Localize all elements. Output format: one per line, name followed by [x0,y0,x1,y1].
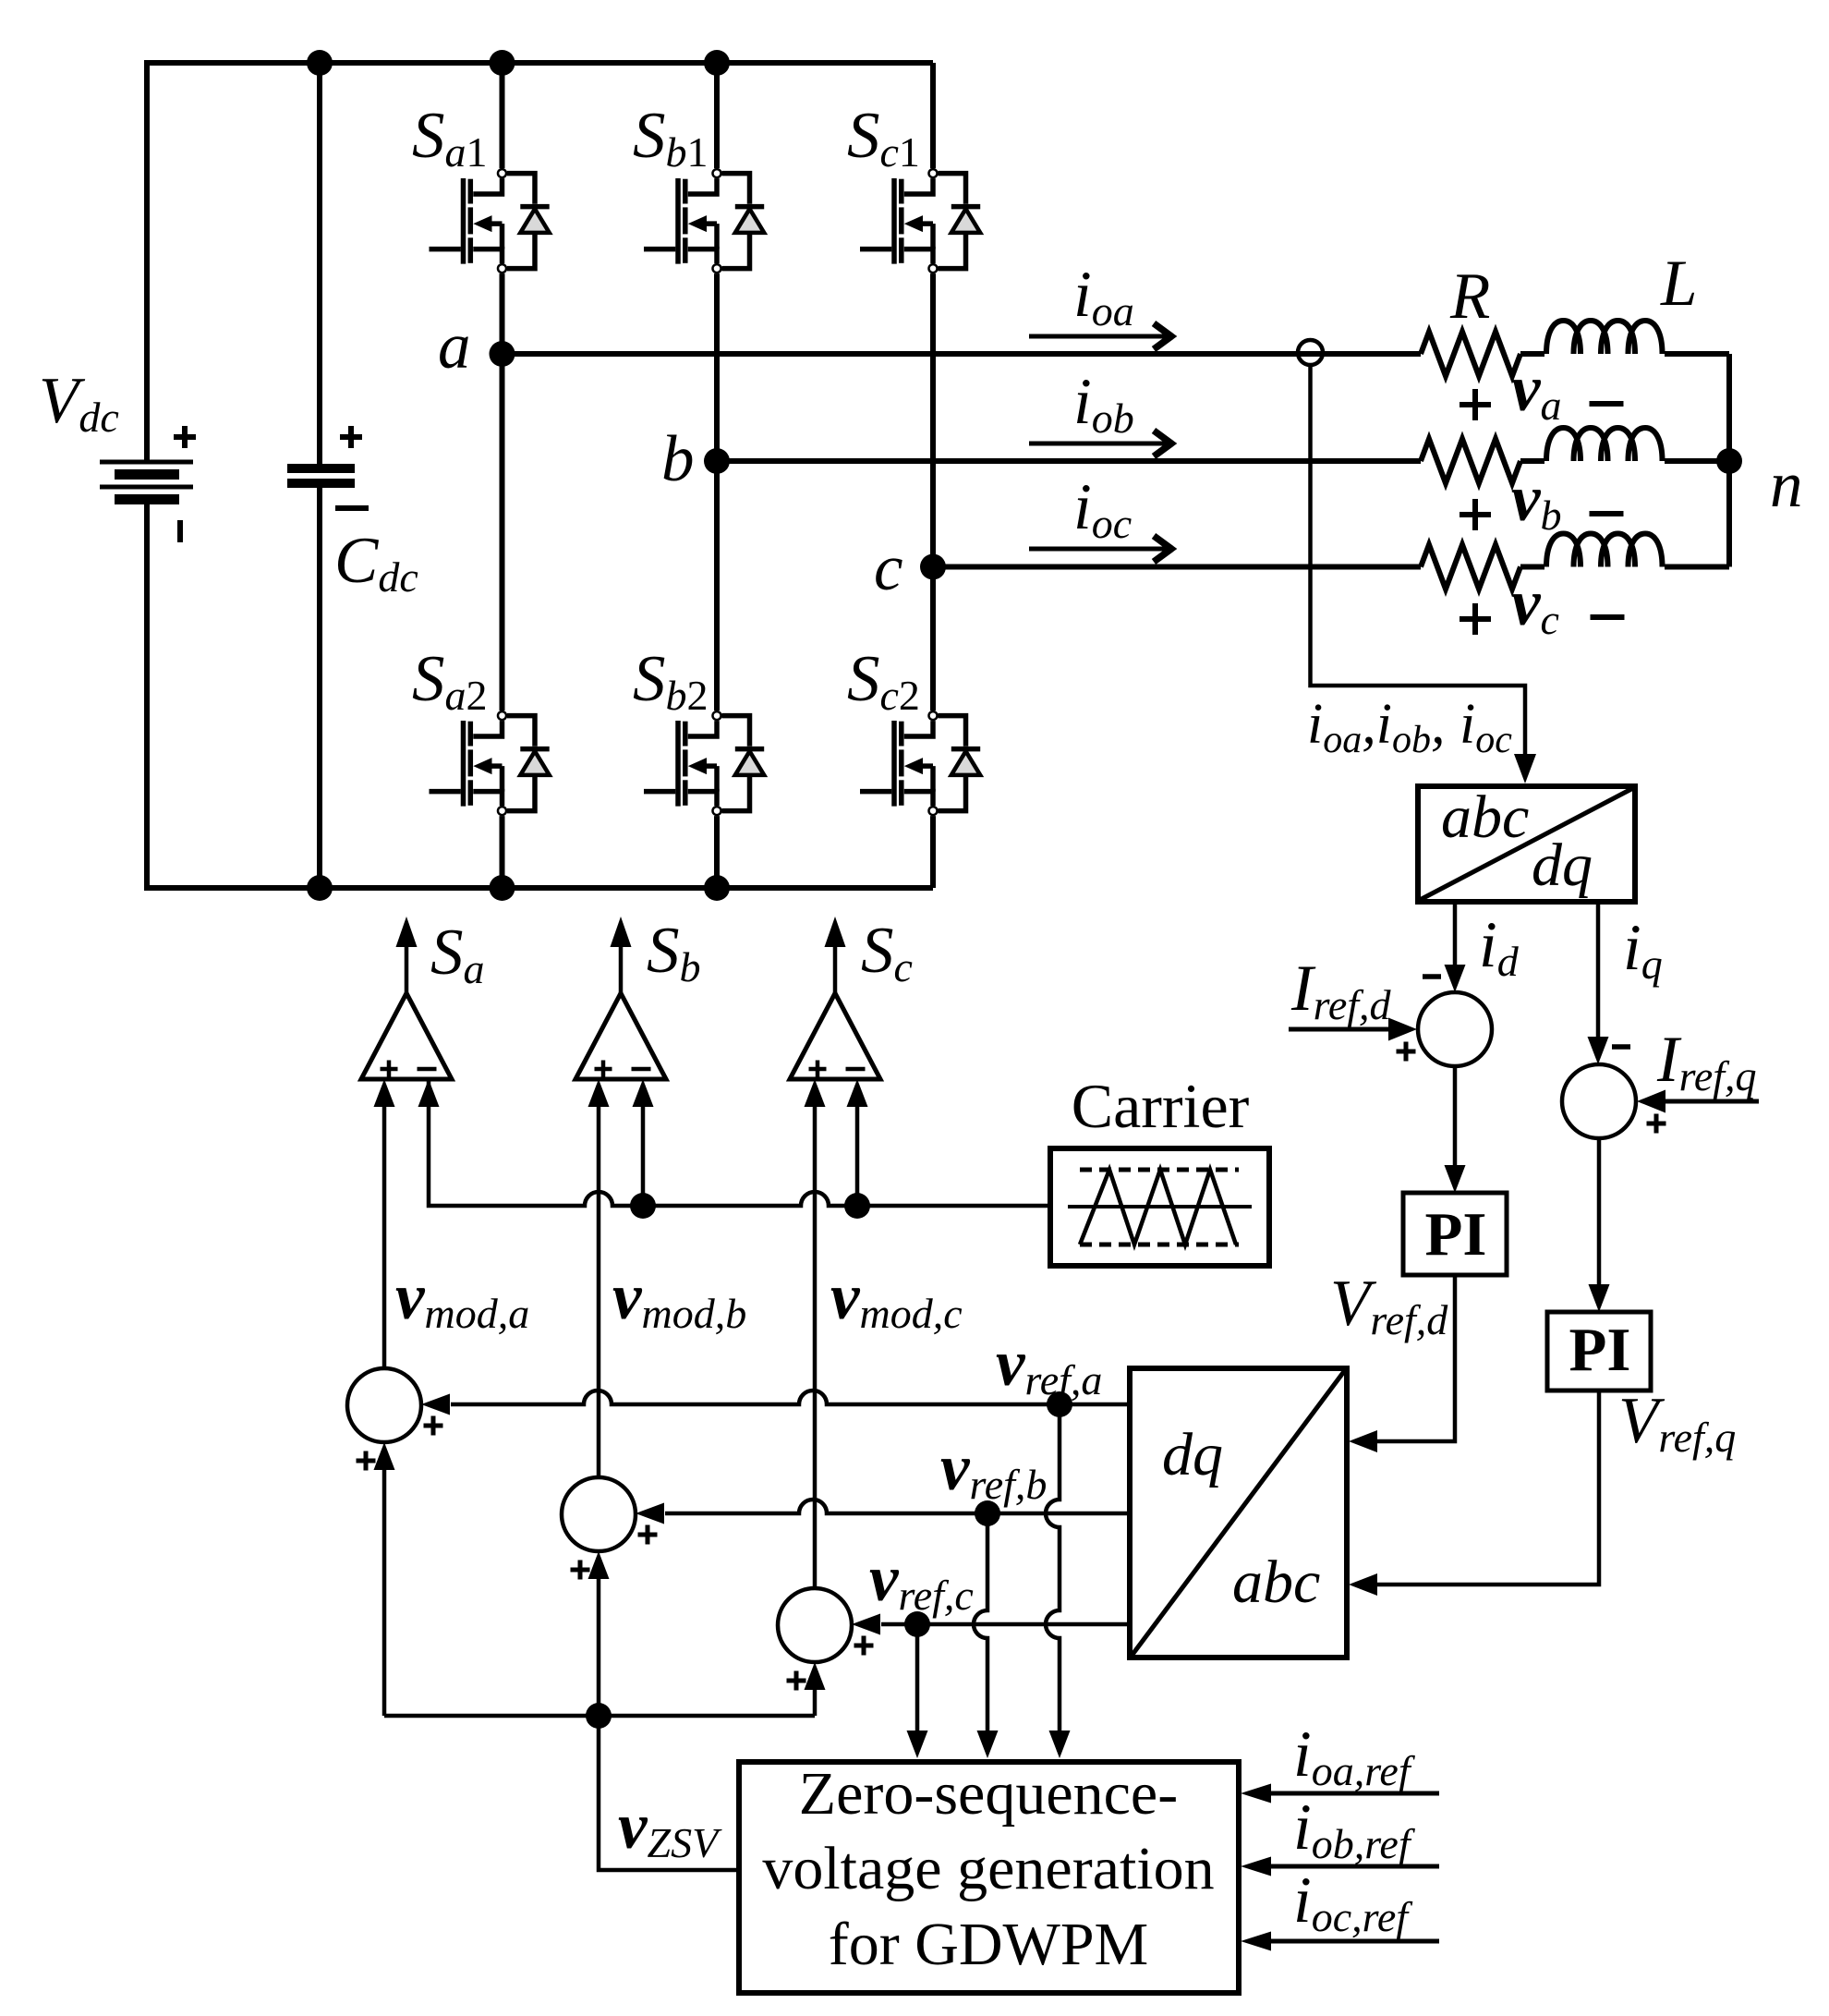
label S_b1 [633,100,709,176]
wire v_ref,b branch down [974,1513,999,1758]
svg-text:n: n [1770,449,1803,521]
inductor L phase b [1546,428,1663,461]
arrow S_b gate signal [611,917,632,993]
svg-text:L: L [1660,248,1698,320]
battery V_dc [100,462,193,500]
wire inverter leg b mid-lower [714,354,720,710]
label i_oc [1073,471,1132,547]
transistor S_c2 [860,711,980,815]
label node a [438,310,471,383]
wire phase c line [933,461,1729,567]
wire v_mod,b line [588,1079,610,1477]
transistor S_b2 [644,711,764,815]
node c [920,554,946,580]
transistor S_a2 [430,711,550,815]
label plus right at sum b [638,1525,658,1545]
wire I_ref,d input [1289,1018,1417,1041]
block abc/dq transform [1418,783,1635,902]
wire sum q to PI [1589,1138,1610,1312]
svg-text:Carrier: Carrier [1072,1071,1250,1141]
svg-text:abc: abc [1441,783,1529,851]
svg-text:for GDWPM: for GDWPM [829,1911,1148,1978]
label V_ref,d [1330,1268,1448,1343]
resistor R phase b [1421,439,1520,483]
svg-text:c: c [874,532,903,604]
node carrier to comparator b [630,1193,656,1219]
wire inverter leg b upper [714,63,720,168]
block dq/abc transform [1130,1368,1347,1658]
wire inverter leg a lower [500,816,505,888]
svg-text:Zero-sequence-: Zero-sequence- [799,1760,1178,1828]
comparator c [790,993,880,1079]
label +v_b- [1460,463,1624,539]
label v_ref,a [996,1328,1102,1403]
wire top DC rail [147,63,933,460]
wire inverter leg a mid-upper [500,273,505,354]
svg-text:a: a [438,310,471,383]
capacitor plus sign [340,426,362,448]
wire v_mod,c line [805,1079,826,1588]
label plus right at sum c [854,1636,874,1656]
label i_oa [1073,259,1134,334]
wire v_ref,a branch down [1046,1404,1071,1758]
block carrier generator [1050,1148,1269,1266]
label node c [874,532,903,604]
svg-text:PI: PI [1569,1316,1631,1384]
inductor L phase c [1546,534,1663,567]
label n [1770,449,1803,521]
capacitor minus sign [335,505,369,511]
wire inverter leg b mid-upper [714,273,720,354]
label i_q [1623,912,1663,988]
node v_ref,a branch [1047,1391,1072,1417]
wire I_ref,q input [1637,1090,1759,1113]
arrow S_a gate signal [396,917,418,993]
label S_c [861,915,913,990]
wire carrier bus [418,1079,1051,1206]
arrow i_oc [1029,536,1171,562]
wire v_ref,c line [852,1614,1130,1635]
wire carrier c input [847,1079,868,1206]
wire inverter leg c lower [930,816,936,888]
transistor S_b1 [644,169,764,273]
label S_b2 [633,643,709,719]
node junction bottom rail / leg a [490,875,515,901]
label plus at sum d [1397,1042,1416,1062]
svg-text:dq: dq [1162,1421,1223,1488]
node v_ref,c branch [904,1611,930,1637]
summing junction q [1562,1064,1636,1138]
label minus at sum d [1423,974,1441,979]
node v_ref,b branch [975,1500,1000,1526]
wire v_mod,a line [374,1079,395,1368]
wire inverter leg c mid-lower [930,354,936,710]
label v_ref,b [940,1432,1047,1508]
node a [490,341,515,367]
svg-text:PI: PI [1425,1200,1487,1269]
label S_b [647,915,701,990]
label plus below at sum a [357,1451,376,1471]
wire inverter leg a upper [500,63,505,168]
svg-text:dq: dq [1532,832,1593,899]
inductor L phase a [1546,321,1663,354]
battery plus sign [174,426,196,448]
wire v_ref,a line [421,1391,1130,1415]
wire inverter leg c mid-upper [930,273,936,354]
label v_ZSV [618,1791,722,1866]
label S_a1 [412,100,488,176]
label S_a2 [412,643,488,719]
label node b [661,423,695,495]
wire sum a bottom input [374,1442,395,1716]
label S_c1 [847,100,920,176]
comparator b [575,993,666,1079]
wire v_ZSV feed to block [599,1716,739,1870]
node sensor tap (open circle) on phase a [1298,340,1323,365]
summing junction c [778,1588,852,1662]
label v_mod,b [612,1261,746,1337]
wire current sense line [1311,365,1537,783]
label C_dc [334,525,418,601]
node junction top rail / C_dc [307,50,333,76]
wire inverter leg c upper [930,63,936,168]
label V_ref,q [1618,1385,1736,1461]
wire v_ZSV bus [384,1714,815,1718]
node carrier to comparator c [844,1193,870,1219]
label S_a [430,917,485,992]
wire i_d output [1445,902,1466,992]
node junction bottom rail / C_dc [307,875,333,901]
node junction top rail / leg b [704,50,730,76]
summing junction a [347,1368,421,1442]
label plus below at sum c [787,1671,806,1691]
wire V_ref,d to dq/abc [1349,1275,1455,1452]
wire i_oa,ref input [1241,1784,1439,1803]
node v_ZSV junction [586,1703,612,1729]
arrow i_ob [1029,431,1171,456]
label I_ref,d [1290,953,1392,1028]
label +v_c- [1460,567,1625,643]
summing junction b [562,1477,636,1551]
summing junction d [1418,992,1492,1066]
label I_ref,q [1656,1024,1757,1099]
label plus below at sum b [571,1561,590,1580]
label v_mod,a [395,1261,529,1337]
transistor S_c1 [860,169,980,273]
label i_oc,ref [1293,1864,1413,1940]
svg-text:R: R [1449,261,1490,333]
wire carrier b input [633,1079,654,1206]
node junction top rail / leg a [490,50,515,76]
label minus at sum q [1612,1044,1630,1050]
label +v_a- [1460,353,1624,429]
wire v_ref,b line [636,1500,1130,1524]
label L [1660,248,1698,320]
arrow i_oa [1029,323,1171,349]
label i_ob,ref [1293,1791,1416,1867]
label R [1449,261,1490,333]
label v_mod,c [830,1261,963,1337]
svg-text:abc: abc [1232,1548,1320,1616]
label S_c2 [847,643,920,719]
node n [1716,448,1742,474]
wire phase b line [717,458,1729,464]
wire i_oc,ref input [1241,1932,1439,1951]
block zero-sequence-voltage generation [739,1760,1239,1993]
label plus at sum q [1647,1114,1666,1134]
svg-text:voltage generation: voltage generation [762,1835,1214,1902]
wire sum c bottom input [805,1662,826,1716]
node junction bottom rail / leg b [704,875,730,901]
label i_ob [1073,366,1134,442]
wire i_q output [1588,902,1609,1064]
wire v_ref,c branch down [907,1624,928,1758]
label plus right at sum a [424,1416,443,1436]
wire V_ref,q to dq/abc [1349,1391,1599,1596]
arrow S_c gate signal [825,917,846,993]
transistor S_a1 [430,169,550,273]
resistor R phase a [1421,332,1520,376]
wire capacitor leg [317,63,322,888]
block PI (q axis) [1547,1312,1651,1391]
wire inverter leg a mid-lower [500,354,505,710]
capacitor C_dc [287,468,355,483]
label i_oa,i_ob,i_oc [1307,693,1512,761]
battery minus sign [177,520,183,542]
resistor R phase c [1421,545,1520,589]
block PI (d axis) [1403,1193,1507,1275]
wire i_ob,ref input [1241,1857,1439,1876]
comparator a [361,993,452,1079]
wire phase a line [503,354,1730,461]
label i_oa,ref [1293,1718,1416,1794]
wire sum b bottom input [588,1551,610,1716]
node b [704,448,730,474]
label i_d [1479,909,1520,985]
wire sum d to PI [1445,1066,1466,1193]
svg-text:b: b [661,423,695,495]
wire inverter leg b lower [714,816,720,888]
label v_ref,c [869,1543,974,1619]
label V_dc [39,365,119,441]
wire bottom DC rail [147,504,933,888]
label Carrier [1072,1071,1250,1141]
